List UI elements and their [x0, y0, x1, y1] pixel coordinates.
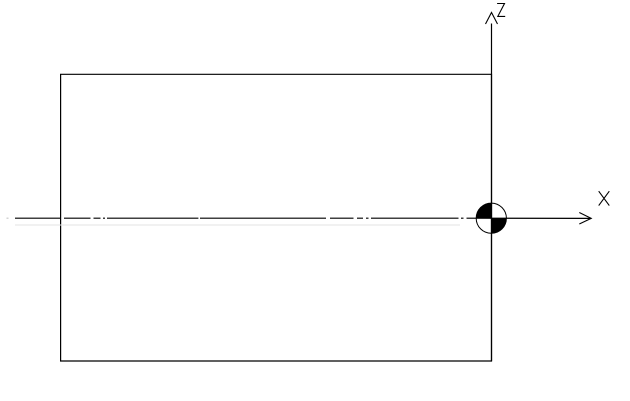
X axis arrowhead	[579, 213, 591, 225]
Z axis arrowhead	[486, 13, 498, 25]
centerline faint lead-in dot	[7, 217, 9, 219]
faint scan artifact line under centerline	[15, 224, 460, 226]
centerline (dash-dot)	[15, 217, 464, 219]
origin symbol top-left quadrant fill	[476, 203, 491, 218]
X axis label	[599, 191, 610, 205]
workpiece outline rectangle	[61, 74, 492, 361]
origin symbol bottom-right quadrant fill	[491, 218, 506, 233]
workpiece origin symbol circle	[476, 203, 506, 233]
X axis line	[467, 217, 592, 219]
Z axis line	[491, 24, 493, 362]
Z axis label	[497, 4, 505, 17]
